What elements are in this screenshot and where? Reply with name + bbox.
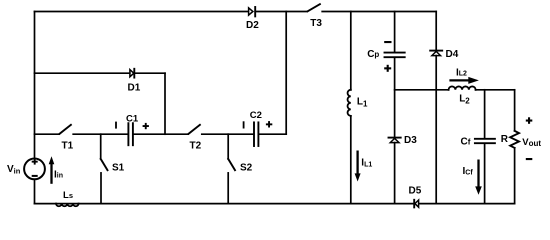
wire D4 branch lower bbox=[435, 56, 437, 204]
svg-text:D2: D2 bbox=[246, 20, 259, 31]
label C2 plus bbox=[266, 121, 272, 127]
wire mid rail C2 to riser bbox=[259, 133, 286, 135]
wire D1 to riser bbox=[135, 72, 165, 74]
switch T3 bbox=[308, 4, 320, 11]
wire S2 lower bbox=[227, 173, 229, 204]
svg-text:Vout: Vout bbox=[522, 137, 541, 148]
svg-text:T3: T3 bbox=[310, 18, 322, 29]
wire bottom rail D5 to R bbox=[419, 203, 515, 205]
wire mid rail left bbox=[35, 133, 60, 135]
diode D3 bbox=[389, 138, 401, 143]
svg-text:R: R bbox=[501, 134, 509, 145]
label Cp minus bbox=[384, 41, 391, 43]
diode D5 bbox=[414, 200, 418, 208]
wire bottom rail Ls to D5 bbox=[79, 203, 414, 205]
diode D1 bbox=[130, 69, 134, 78]
source Vin bbox=[24, 159, 45, 180]
wire top rail left of D2 bbox=[35, 11, 249, 13]
arrow Icf bbox=[475, 160, 482, 195]
wire R branch upper bbox=[514, 90, 516, 131]
wire left rail lower bbox=[34, 179, 36, 203]
svg-text:S1: S1 bbox=[112, 162, 125, 173]
svg-text:D4: D4 bbox=[446, 49, 459, 60]
svg-text:Ls: Ls bbox=[63, 190, 73, 201]
svg-text:S2: S2 bbox=[240, 162, 253, 173]
label Vout minus bbox=[526, 158, 533, 160]
capacitor Cf bbox=[475, 139, 495, 143]
diode D4 bbox=[430, 51, 442, 56]
svg-text:L1: L1 bbox=[357, 97, 368, 109]
switch T1 bbox=[60, 125, 71, 134]
wire mid rail C1 to T2 bbox=[134, 133, 188, 135]
wire Cp to mid-right rail bbox=[394, 58, 396, 137]
svg-text:L2: L2 bbox=[459, 94, 470, 106]
label Vout plus bbox=[526, 117, 533, 124]
diode D2 bbox=[249, 7, 256, 16]
resistor R bbox=[510, 131, 519, 148]
svg-text:Cp: Cp bbox=[367, 49, 379, 60]
wire D1 branch horizontal bbox=[35, 72, 130, 74]
wire riser D1 branch down bbox=[164, 73, 166, 134]
wire mid rail T2 to C2 bbox=[202, 133, 253, 135]
capacitor C1 bbox=[128, 123, 133, 145]
wire top rail D2 to T3 bbox=[255, 11, 307, 13]
inductor L1 bbox=[348, 90, 351, 116]
svg-text:IL1: IL1 bbox=[361, 157, 372, 168]
source Vin polarity plus bbox=[32, 159, 38, 165]
svg-text:C1: C1 bbox=[126, 113, 139, 124]
switch S2 bbox=[228, 159, 235, 170]
capacitor Cp bbox=[385, 53, 405, 58]
label C2 minus bar bbox=[243, 121, 245, 128]
wire D4 branch upper bbox=[435, 12, 437, 50]
wire bottom rail left bbox=[35, 203, 57, 205]
wire D3 branch lower bbox=[394, 143, 396, 204]
svg-text:D1: D1 bbox=[128, 83, 141, 94]
svg-text:T2: T2 bbox=[190, 140, 202, 151]
arrow Iin bbox=[49, 156, 55, 184]
wire mid-right rail Cp to L2 bbox=[395, 89, 449, 91]
wire Cf branch lower bbox=[484, 144, 486, 204]
source Vin polarity minus bbox=[32, 175, 38, 177]
switch T2 bbox=[189, 125, 200, 134]
wire S1 upper bbox=[100, 134, 102, 159]
wire mid rail T1 to C1 bbox=[73, 133, 127, 135]
arrow IL1 bbox=[355, 151, 361, 182]
label C1 minus bar bbox=[115, 122, 117, 129]
wire riser mid rail to top rail bbox=[285, 12, 287, 135]
wire R branch lower bbox=[514, 148, 516, 204]
wire S1 lower bbox=[100, 173, 102, 204]
svg-text:Vin: Vin bbox=[7, 164, 21, 176]
wire Cf branch upper bbox=[484, 90, 486, 138]
svg-text:C2: C2 bbox=[250, 110, 262, 121]
inductor Ls bbox=[56, 204, 79, 207]
arrow IL2 bbox=[449, 77, 479, 84]
svg-text:D5: D5 bbox=[409, 186, 422, 197]
svg-text:Cf: Cf bbox=[461, 137, 471, 148]
inductor L2 bbox=[449, 86, 476, 89]
capacitor C2 bbox=[254, 122, 258, 146]
svg-text:ICf: ICf bbox=[463, 166, 474, 177]
wire L2 to R corner bbox=[476, 89, 515, 91]
wire L1 branch lower bbox=[350, 116, 352, 204]
svg-text:Iin: Iin bbox=[54, 169, 63, 180]
wire top rail T3 to D4 branch bbox=[322, 11, 436, 13]
label C1 plus bbox=[143, 123, 149, 129]
switch S1 bbox=[101, 159, 108, 170]
svg-text:T1: T1 bbox=[62, 140, 74, 151]
wire left rail upper bbox=[34, 12, 36, 159]
label Cp plus bbox=[384, 65, 391, 72]
svg-text:D3: D3 bbox=[404, 135, 417, 146]
wire L1 branch upper bbox=[350, 12, 352, 90]
wire S2 upper bbox=[227, 134, 229, 159]
svg-text:IL2: IL2 bbox=[456, 68, 467, 79]
wire Cp branch upper bbox=[394, 12, 396, 53]
